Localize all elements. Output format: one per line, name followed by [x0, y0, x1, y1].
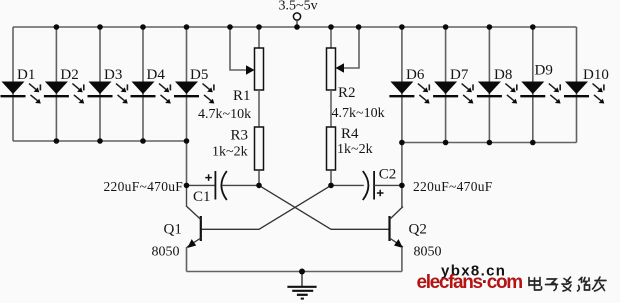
LED D10: [564, 82, 604, 104]
node C1 left / Q1 collector: [184, 183, 190, 189]
node C2 right / Q2 collector: [399, 183, 405, 189]
LED D2: [44, 82, 84, 104]
svg-text:C2: C2: [379, 167, 397, 183]
LED D1: [1, 82, 41, 104]
capacitor C2: [331, 171, 402, 200]
svg-text:220uF~470uF: 220uF~470uF: [413, 179, 493, 194]
junction dot right bottom rail at D9: [530, 140, 536, 146]
junction dot top rail at R2: [328, 24, 334, 30]
wire LED branch D10 (right edge): [576, 27, 578, 143]
watermark chinese characters (drawn): [529, 277, 606, 291]
junction dot top rail at power terminal: [294, 24, 300, 30]
wire bottom emitter rail: [187, 271, 402, 273]
svg-text:D5: D5: [190, 67, 208, 83]
junction dot top rail at D9: [530, 24, 536, 30]
arrowhead R2 wiper: [336, 63, 345, 72]
svg-text:D6: D6: [406, 67, 425, 83]
svg-text:D2: D2: [60, 67, 78, 83]
wire R3 bottom lead: [258, 170, 260, 185]
LED D8: [477, 82, 517, 104]
capacitor C1: [187, 171, 260, 200]
LED D7: [433, 82, 473, 104]
svg-text:D8: D8: [494, 67, 512, 83]
wire LED branch D3: [99, 27, 101, 141]
junction dot top rail at R1: [256, 24, 262, 30]
svg-text:8050: 8050: [152, 245, 180, 260]
junction dot top rail at R1 wiper feed: [227, 24, 233, 30]
svg-text:R1: R1: [233, 88, 251, 104]
resistor R4: [327, 127, 336, 170]
svg-text:Q2: Q2: [409, 222, 427, 238]
junction dot left bottom rail at D3: [97, 138, 103, 144]
LED D9: [520, 82, 560, 104]
svg-text:3.5~5v: 3.5~5v: [279, 0, 318, 14]
svg-text:C1: C1: [193, 189, 211, 205]
potentiometer R1: [255, 27, 264, 127]
junction dot top rail at D6: [399, 24, 405, 30]
junction dot top rail at D8: [487, 24, 493, 30]
wire cross-couple R4 node to Q1 base: [202, 185, 331, 229]
wire left LED bottom rail: [13, 140, 187, 142]
svg-text:R3: R3: [231, 128, 249, 144]
svg-text:D1: D1: [17, 67, 35, 83]
wire LED branch D7: [445, 27, 447, 143]
wire R4 bottom lead: [330, 170, 332, 185]
wire cross-couple R3 node to Q2 base: [259, 185, 389, 229]
wire R1 wiper feed: [230, 27, 246, 70]
wire LED branch D1 (left edge): [12, 27, 14, 141]
wire LED branch D2: [55, 27, 57, 141]
junction dot top rail at R2 wiper feed: [356, 24, 362, 30]
junction dot top rail at D7: [443, 24, 449, 30]
LED D5: [174, 82, 214, 104]
svg-text:220uF~470uF: 220uF~470uF: [104, 179, 184, 194]
wire LED branch D5: [186, 27, 188, 141]
LED D3: [88, 82, 128, 104]
junction dot left bottom rail at D4: [140, 138, 146, 144]
wire LED branch D4: [142, 27, 144, 141]
svg-text:1k~2k: 1k~2k: [212, 145, 248, 160]
LED D4: [131, 82, 171, 104]
wire right LED bottom rail: [402, 142, 577, 144]
wire Q1 emitter down: [186, 247, 188, 272]
wire R2 wiper feed: [344, 27, 359, 68]
wire Q2 collector up to C2 node: [401, 185, 403, 207]
transistor Q1: [187, 207, 201, 249]
wire LED branch D8: [488, 27, 490, 143]
junction dot right bottom rail at D6: [399, 140, 405, 146]
potentiometer R2: [327, 27, 336, 127]
svg-text:4.7k~10k: 4.7k~10k: [332, 106, 385, 121]
junction dot top rail at D4: [140, 24, 146, 30]
wire top supply rail: [13, 26, 577, 28]
svg-text:8050: 8050: [414, 245, 442, 260]
junction dot left bottom rail at D5: [184, 138, 190, 144]
wire D6 branch (top rail to C2 node): [401, 27, 403, 185]
wire LED branch D9: [532, 27, 534, 143]
svg-text:1k~2k: 1k~2k: [337, 142, 373, 157]
wire D5 branch down to C1 node: [186, 141, 188, 185]
junction dot left bottom rail at D2: [54, 138, 60, 144]
svg-text:D4: D4: [147, 67, 166, 83]
svg-text:R2: R2: [338, 85, 356, 101]
svg-text:elecfans·com: elecfans·com: [417, 272, 523, 293]
resistor R3: [255, 127, 264, 170]
wire Q1 collector up to C1 node: [186, 185, 188, 207]
svg-text:4.7k~10k: 4.7k~10k: [198, 107, 251, 122]
transistor Q2: [390, 207, 404, 249]
svg-text:R4: R4: [341, 126, 359, 142]
node R4 bottom / C2 left: [328, 183, 334, 189]
svg-text:D9: D9: [535, 63, 553, 79]
arrowhead R1 wiper: [246, 65, 255, 74]
power terminal +3.5~5v: [293, 13, 300, 27]
junction dot right bottom rail at D8: [487, 140, 493, 146]
svg-text:D7: D7: [450, 67, 469, 83]
svg-text:Q1: Q1: [164, 222, 182, 238]
node R3 bottom / C1 right: [256, 183, 262, 189]
svg-text:D10: D10: [583, 67, 609, 83]
junction dot top rail at D3: [97, 24, 103, 30]
junction dot ground: [299, 269, 305, 275]
LED D6: [389, 82, 429, 104]
svg-text:D3: D3: [104, 67, 122, 83]
junction dot right bottom rail at D7: [443, 140, 449, 146]
junction dot top rail at D2: [54, 24, 60, 30]
ground: [287, 272, 316, 299]
wire Q2 emitter down: [401, 247, 403, 272]
junction dot top rail at D5: [184, 24, 190, 30]
